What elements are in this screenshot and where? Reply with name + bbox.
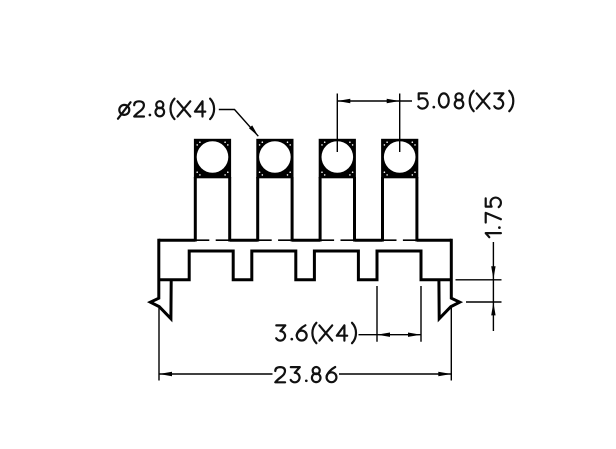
dimension 5.08(X3) extension lines	[337, 94, 399, 153]
post 4 head	[381, 139, 418, 179]
post 4 stem	[383, 177, 417, 242]
body top edge solid segments	[159, 239, 452, 242]
dimension 23.86 extension lines	[159, 306, 451, 381]
left leg with barb	[150, 239, 171, 319]
post 3 head	[319, 139, 356, 179]
dia 2.8 leader line	[219, 110, 258, 137]
post 2 head	[256, 139, 293, 179]
label 5.08(X3)	[418, 91, 513, 111]
23.86 dimension line	[159, 373, 451, 375]
1.75 extension lines	[456, 280, 502, 302]
23.86 arrows	[159, 372, 451, 376]
label 1.75 (rotated)	[486, 198, 501, 238]
post 1 head	[194, 139, 231, 179]
body bottom comb profile	[159, 251, 452, 280]
post 2 stem	[258, 177, 292, 242]
body top edge thin hidden segments under posts	[197, 239, 416, 241]
dimension 5.08(X3) arrows	[337, 99, 399, 103]
1.75 dimension lines	[492, 242, 494, 331]
dimension 3.6(X4) extension lines	[377, 286, 421, 342]
3.6 arrows	[377, 333, 421, 337]
right leg with barb	[439, 239, 460, 319]
label o2.8(X4)	[118, 99, 214, 119]
3.6 dimension line	[359, 334, 422, 336]
1.75 arrows	[491, 266, 495, 315]
post 3 stem	[320, 177, 354, 242]
dimension 5.08(X3) line	[337, 100, 412, 102]
post 1 stem	[195, 177, 229, 242]
label 3.6(X4)	[276, 323, 356, 343]
dia 2.8 leader arrow	[249, 125, 258, 136]
label 23.86	[275, 367, 336, 382]
